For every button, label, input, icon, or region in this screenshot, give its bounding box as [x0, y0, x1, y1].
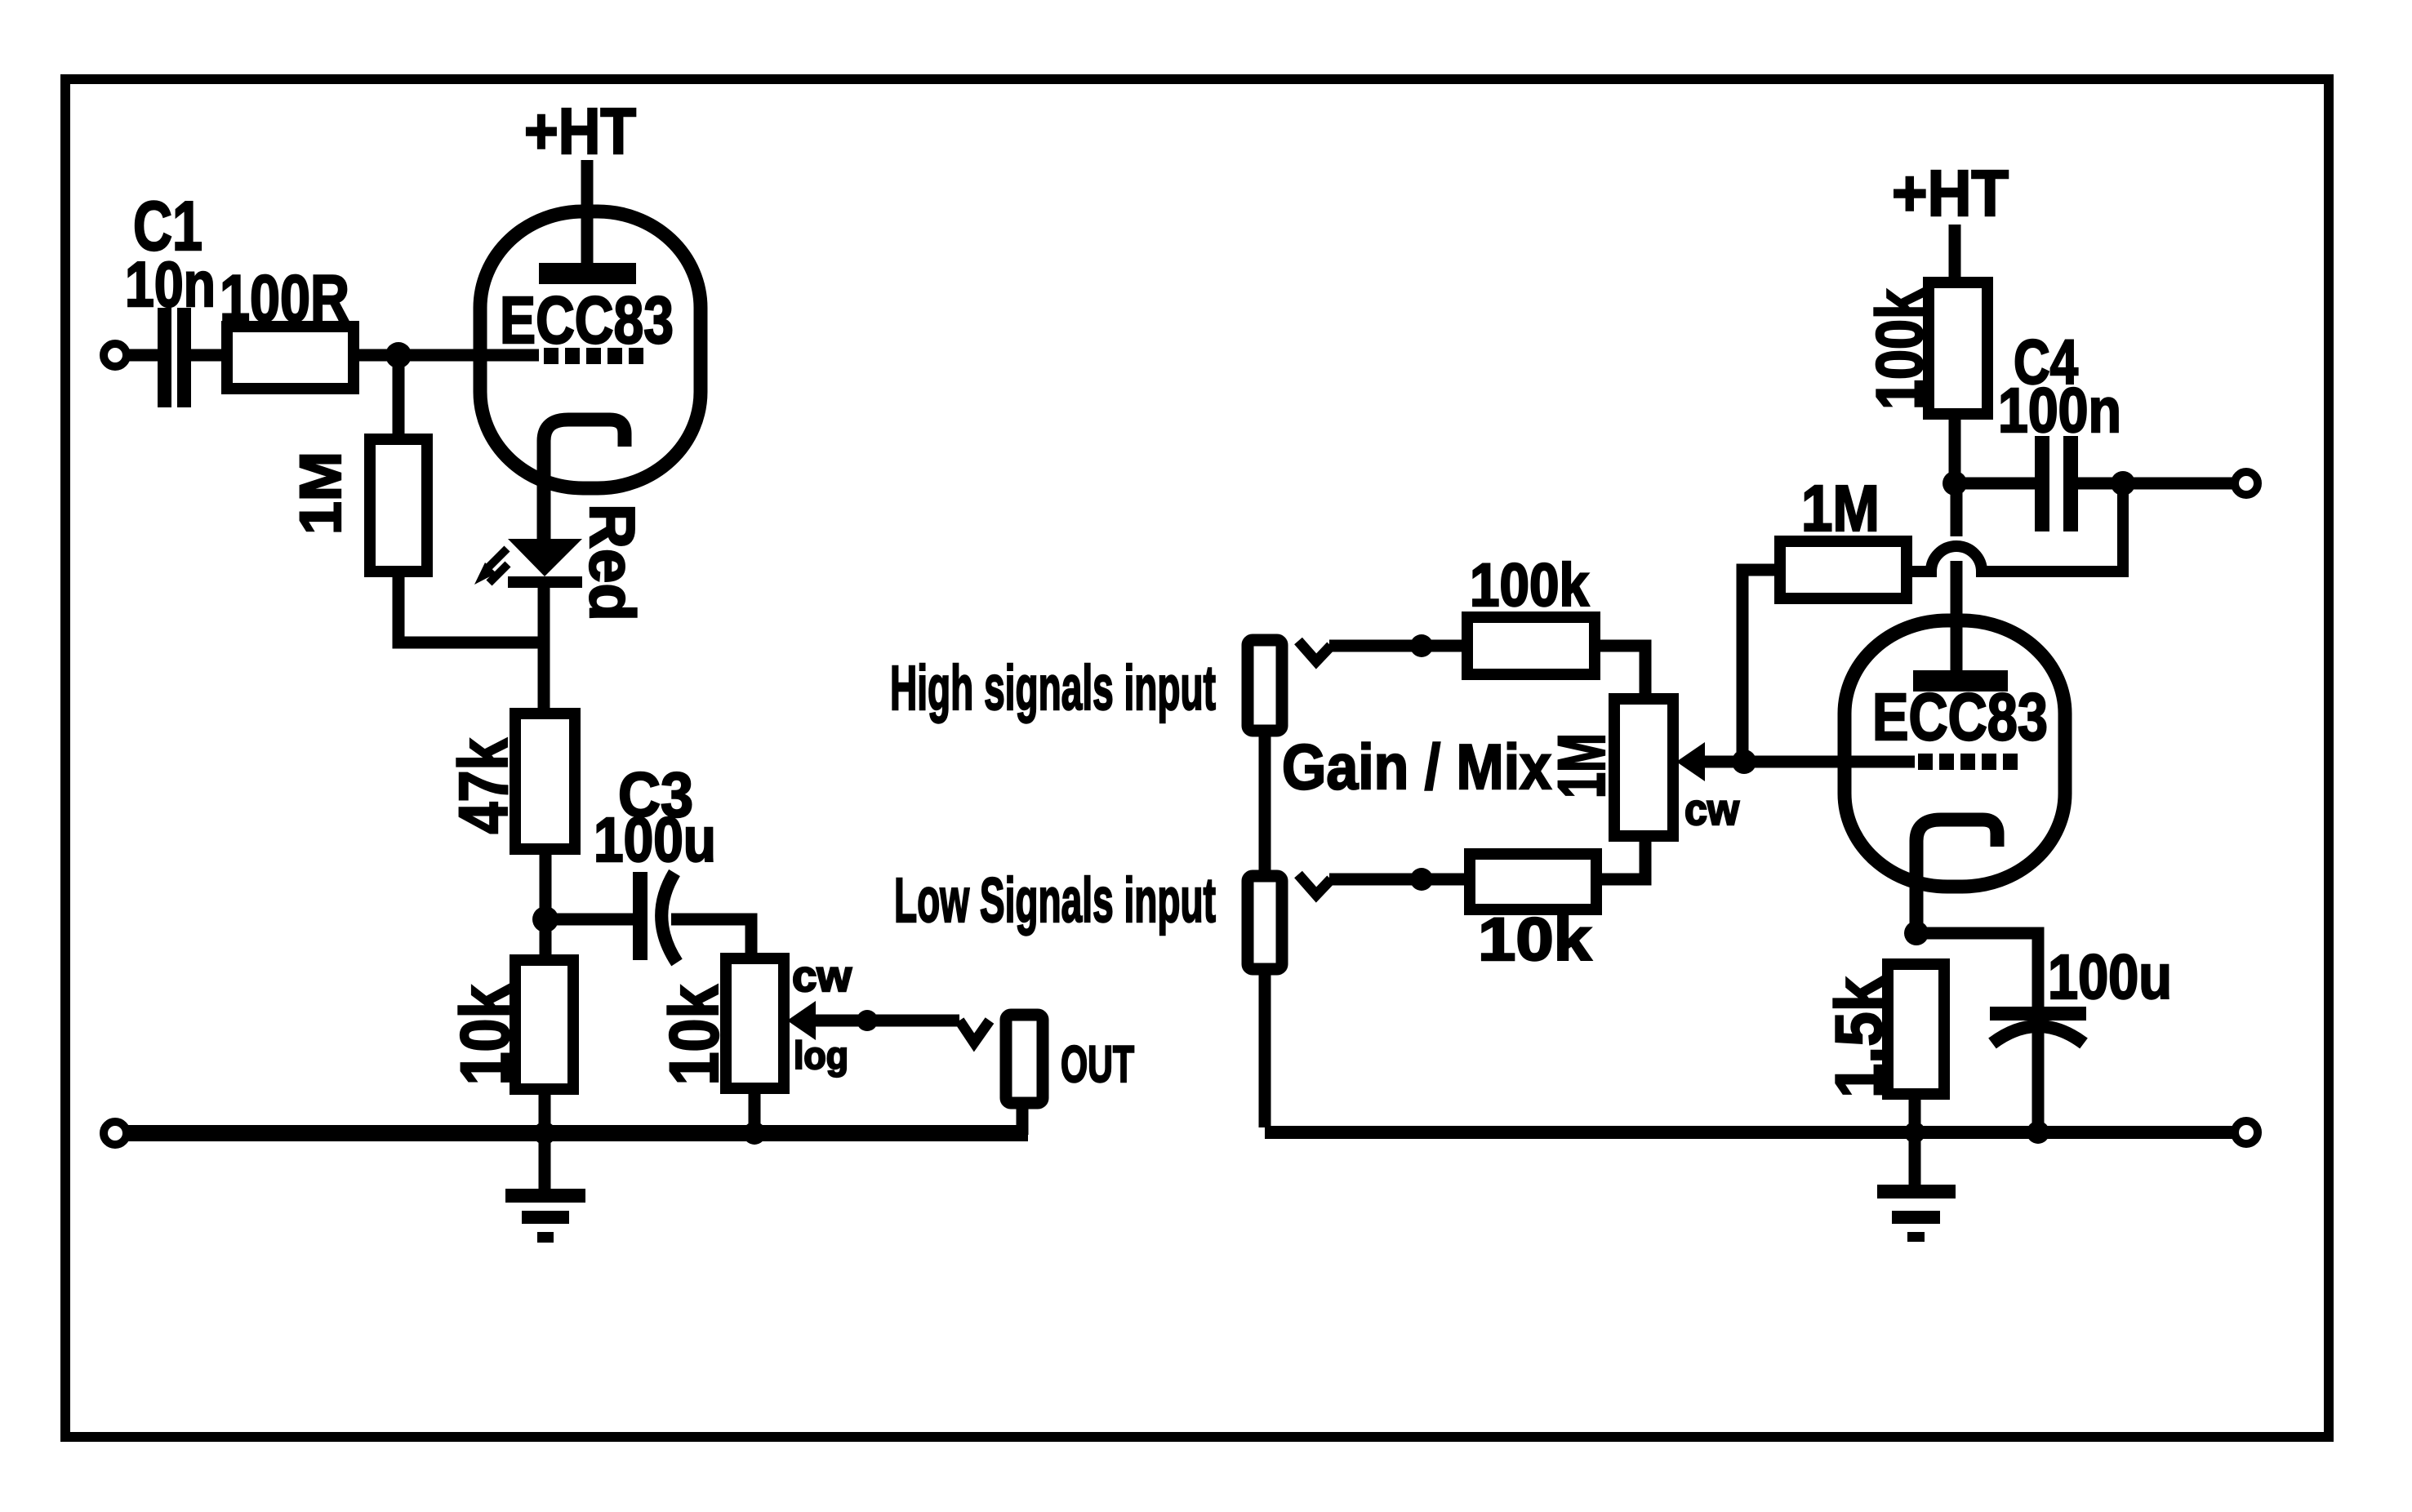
- svg-text:cw: cw: [1684, 785, 1740, 834]
- svg-text:Low Signals input: Low Signals input: [894, 865, 1216, 936]
- capacitor C3 100u: [594, 760, 716, 963]
- node 100u bus junction: [2027, 1121, 2049, 1144]
- svg-text:+HT: +HT: [1892, 157, 2009, 229]
- tube U2 anode plate: [1913, 483, 2008, 692]
- wire grid node to tube grid: [1742, 756, 1915, 768]
- ground symbol right: [1877, 1185, 1956, 1242]
- ground symbol left: [505, 1189, 585, 1243]
- jack OUT body: [1006, 1015, 1134, 1103]
- svg-text:10n: 10n: [125, 248, 216, 320]
- svg-text:Gain / Mix: Gain / Mix: [1282, 731, 1551, 803]
- svg-text:OUT: OUT: [1061, 1036, 1134, 1093]
- svg-text:10k: 10k: [1478, 905, 1592, 973]
- wire node down to 1M: [393, 355, 405, 439]
- resistor 100k mix high: [1467, 551, 1595, 674]
- svg-text:100n: 100n: [1998, 376, 2121, 446]
- wire 100R to grid node: [354, 349, 398, 362]
- svg-text:47k: 47k: [445, 738, 522, 834]
- LED D1 emission arrows: [474, 549, 508, 585]
- svg-text:High signals input: High signals input: [890, 653, 1216, 723]
- node output junction: [2111, 471, 2135, 496]
- resistor 1.5k cathode: [1822, 964, 1944, 1098]
- wire jacks sleeve chain: [1259, 731, 1271, 876]
- svg-text:100k: 100k: [1470, 551, 1590, 619]
- jack J1 tip contact: [1298, 641, 1331, 661]
- node C3 junction: [532, 906, 558, 932]
- resistor 10k lower left: [447, 960, 573, 1089]
- tube U2 cathode: [1916, 820, 1997, 934]
- resistor 1M grid leak: [289, 439, 427, 571]
- node grid junction: [385, 342, 412, 368]
- wire J2 sleeve down to right bus: [1259, 969, 1271, 1127]
- svg-text:1M: 1M: [1801, 472, 1880, 545]
- capacitor C4 100n: [1998, 327, 2121, 531]
- text High signals input: [890, 653, 1216, 723]
- svg-text:+HT: +HT: [524, 95, 636, 167]
- capacitor C1 10n: [125, 188, 216, 407]
- node anode junction: [1943, 471, 1967, 496]
- wire 10k to pot 1M bottom: [1596, 836, 1645, 879]
- pot 1M wiper arrow: [1676, 742, 1744, 781]
- wire 1M bottom to cathode junction: [398, 571, 544, 643]
- tube U2 grid dashes: [1918, 754, 2018, 770]
- resistor 100R: [220, 262, 354, 389]
- tube U1 grid dashes: [544, 348, 643, 364]
- jack J2 low body: [1248, 876, 1282, 969]
- resistor 100k anode load: [1863, 282, 1987, 414]
- jack J2 tip contact: [1298, 874, 1331, 895]
- jack OUT tip contact: [959, 1021, 990, 1043]
- output terminal right: [2235, 472, 2258, 495]
- svg-text:ECC83: ECC83: [1872, 680, 2048, 754]
- wire C1 to 100R: [191, 349, 227, 362]
- input terminal IN: [104, 344, 127, 367]
- wire C3 to pot 10k top: [671, 919, 751, 958]
- LED D1 cathode bar: [508, 576, 582, 588]
- wire 1.5k to bus and ground: [1909, 1094, 1921, 1185]
- node wiper junction: [857, 1010, 878, 1031]
- +HT supply right: [1892, 157, 2009, 286]
- ground terminal left: [104, 1122, 127, 1145]
- potentiometer 10k log: [656, 952, 852, 1088]
- tube U1 ECC83 envelope: [480, 211, 701, 488]
- wire pot 10k to bus: [749, 1088, 761, 1133]
- node cathode junction: [1904, 921, 1929, 945]
- svg-text:ECC83: ECC83: [500, 283, 674, 358]
- wire input to C1: [127, 349, 158, 362]
- svg-text:100R: 100R: [220, 262, 349, 336]
- ground bus right: [1265, 1126, 2236, 1139]
- wire feedback with hop over anode: [1907, 483, 2123, 571]
- LED D1 label Red: [576, 504, 648, 621]
- ground terminal right: [2235, 1121, 2258, 1144]
- svg-text:100u: 100u: [594, 805, 716, 875]
- svg-text:log: log: [794, 1034, 848, 1077]
- tube U2 ECC83 envelope: [1845, 620, 2065, 887]
- wire 100k to anode node: [1949, 414, 1961, 483]
- wire OUT jack to bus: [1017, 1103, 1029, 1135]
- wire 100k to pot 1M top: [1595, 646, 1645, 699]
- svg-text:100u: 100u: [2048, 942, 2172, 1012]
- resistor 1M feedback: [1780, 472, 1907, 598]
- wire C4 to output terminal: [2078, 478, 2236, 490]
- wire J2 to 10k: [1329, 874, 1470, 886]
- jack J1 high body: [1248, 640, 1282, 731]
- ground bus left: [127, 1125, 1028, 1141]
- wire C3 node to C3: [545, 914, 633, 926]
- svg-text:10k: 10k: [656, 985, 732, 1085]
- wire grid node to tube grid: [398, 349, 539, 362]
- svg-text:10k: 10k: [447, 985, 523, 1085]
- pot 1M Gain/Mix body: [1545, 699, 1740, 836]
- +HT supply left: [524, 95, 636, 266]
- wire cathode to 100u: [1916, 933, 2038, 1007]
- node J2 wire junction: [1410, 868, 1433, 891]
- node pot bus junction: [743, 1122, 766, 1145]
- wire 100u to bus: [2032, 1031, 2045, 1132]
- node 10k bus junction: [533, 1122, 556, 1145]
- wire anode node to C4: [1955, 478, 2035, 490]
- wire 1M to grid node: [1742, 570, 1780, 762]
- svg-text:1.5k: 1.5k: [1822, 976, 1896, 1098]
- tube U1 cathode: [544, 420, 625, 540]
- wire 47k to C3 node: [540, 849, 552, 960]
- resistor 10k mix low: [1470, 854, 1596, 973]
- tube U1 anode plate: [539, 263, 636, 284]
- tube U2 label: [1872, 680, 2048, 754]
- capacitor 100u bypass: [1990, 942, 2172, 1043]
- pot 10k wiper arrow: [787, 1001, 959, 1040]
- svg-text:1M: 1M: [289, 451, 354, 535]
- svg-text:1M: 1M: [1545, 733, 1619, 798]
- wire 10k to ground bus: [539, 1089, 551, 1189]
- svg-text:cw: cw: [792, 952, 852, 1001]
- LED D1 Red triangle: [508, 539, 582, 576]
- text Low Signals input: [894, 865, 1216, 936]
- node J1 wire junction: [1410, 634, 1433, 657]
- svg-text:Red: Red: [576, 504, 648, 621]
- wire LED to 47k: [538, 588, 550, 714]
- node grid junction right: [1732, 749, 1756, 774]
- text Gain / Mix: [1282, 731, 1551, 803]
- tube U1 label: [500, 283, 674, 358]
- resistor 47k: [445, 714, 575, 849]
- wire J1 to 100k: [1329, 640, 1467, 652]
- svg-text:100k: 100k: [1863, 288, 1937, 410]
- node 1.5k bus junction: [1904, 1122, 1925, 1143]
